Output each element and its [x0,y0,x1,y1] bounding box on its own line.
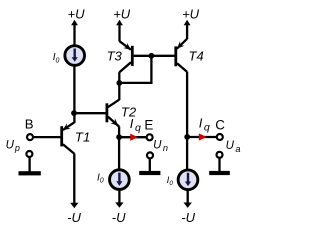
terminal E [147,134,153,140]
label T3 [107,48,123,63]
svg-text:T3: T3 [107,48,123,63]
svg-text:-U: -U [112,210,126,225]
svg-text:+U: +U [113,7,131,22]
terminal C [217,134,223,140]
svg-text:I0: I0 [97,173,104,185]
svg-text:I0: I0 [53,52,60,64]
label T2 [121,104,137,119]
node: C junction [184,134,190,140]
label Up [6,139,20,153]
label B [25,116,34,131]
svg-text:T1: T1 [75,129,90,144]
current source I0 (bottom right) [178,170,198,190]
supply -U label (middle) [112,210,126,225]
svg-text:T4: T4 [189,48,204,63]
svg-text:Iq: Iq [199,116,210,134]
supply +U arrow (right) [184,20,191,39]
label Un [153,140,168,154]
wire: B to T1 base [33,136,60,138]
wire: I0 to T1 emitter node [73,66,75,114]
transistor T1 [62,113,75,154]
supply +U arrow (middle) [116,20,123,42]
current arrow Iq (C) [199,133,207,140]
supply -U arrow (right) [184,191,192,208]
terminal B [27,134,33,140]
svg-text:B: B [25,116,34,131]
node: T3 collector junction [116,80,122,86]
voltage source Ua terminal [217,152,223,158]
node: base junction [149,53,155,59]
supply -U arrow (left) [70,203,78,208]
wire: emitter node to T2 base [74,112,106,114]
svg-text:+U: +U [182,7,200,22]
label E [144,118,153,133]
svg-text:Ua: Ua [226,140,241,154]
supply +U label (middle) [113,7,131,22]
voltage source Ua ground [209,158,230,175]
transistor T4 [176,39,187,72]
svg-text:-U: -U [67,210,81,225]
supply -U label (left) [67,210,81,225]
wire: C node to terminal C [187,136,216,138]
supply +U label (left) [68,7,86,22]
node: E junction [116,134,122,140]
wire: T2 collector up to T3 collector [118,72,120,100]
svg-text:I0: I0 [167,175,174,187]
svg-text:-U: -U [181,210,195,225]
voltage source Up ground [19,157,41,175]
wire: T2 emitter down to I0 [118,126,120,170]
current source I0 (bottom middle) [110,170,130,190]
wire: T1 collector to -U [73,154,75,205]
svg-text:Un: Un [153,140,168,154]
supply +U arrow (left) [71,20,78,46]
current source I0 (top left) [65,46,85,66]
label T4 [189,48,204,63]
supply -U label (right) [181,210,195,225]
svg-text:C: C [215,118,225,133]
node: T1 emitter junction [71,110,77,116]
label I0 (bottom middle) [97,173,104,185]
transistor T2 [107,100,119,127]
wire: feedback loop (T3 base to collector) [119,56,151,83]
label Iq (C) [199,116,210,134]
svg-text:E: E [144,118,153,133]
label Ua [226,140,241,154]
label Iq (E) [130,116,141,134]
voltage source Un terminal [147,152,153,158]
label T1 [75,129,90,144]
svg-text:+U: +U [68,7,86,22]
label I0 (top left) [53,52,60,64]
wire: base T3 to T4 [134,55,175,57]
wire: E node to terminal E [119,136,146,138]
supply +U label (right) [182,7,200,22]
label I0 (bottom right) [167,175,174,187]
transistor T3 [119,41,132,72]
svg-text:Up: Up [6,139,20,153]
label C [215,118,225,133]
voltage source Un ground [139,159,160,175]
current arrow Iq (E) [130,134,138,141]
supply -U arrow (middle) [115,191,123,208]
voltage source Up terminal [26,151,32,157]
wire: T4 collector down to C node [186,72,188,171]
